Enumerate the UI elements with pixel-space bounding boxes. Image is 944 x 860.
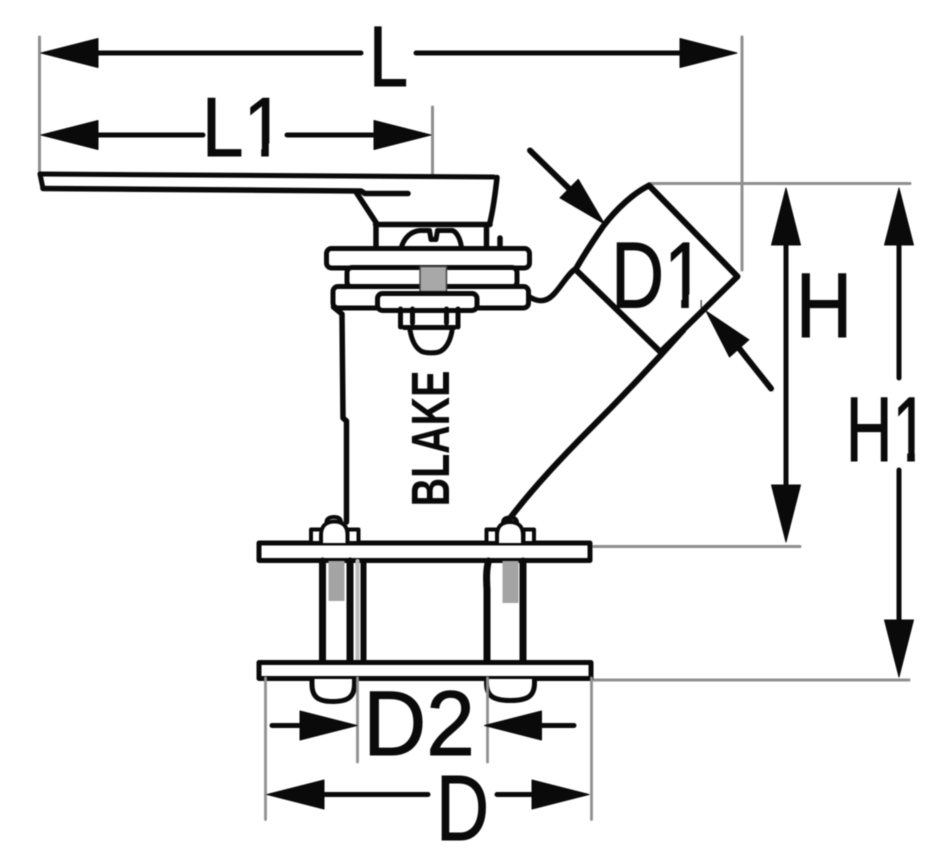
left bolt gray shading — [329, 561, 345, 601]
dimension H1 top arrowhead — [885, 188, 914, 245]
right bolt shaft lines — [487, 561, 523, 662]
dimension D right arrowhead — [532, 780, 589, 809]
cone head right edge — [490, 178, 497, 223]
extension line left for D2 — [356, 678, 359, 762]
svg-text:D: D — [436, 756, 489, 860]
extension line top for H and H1 — [649, 182, 910, 185]
bottom dome of stem — [410, 330, 452, 353]
dimension H bottom arrowhead — [772, 485, 801, 542]
middle band of gland stack — [347, 268, 517, 288]
label L — [369, 9, 408, 105]
dimension H top arrowhead — [772, 188, 801, 245]
extension line left for L and L1 — [38, 37, 41, 172]
extension line right for D — [590, 678, 593, 820]
small plate below stack — [378, 294, 478, 311]
right bolt bottom dome — [487, 679, 535, 701]
dimension L right arrowhead — [680, 39, 737, 68]
handle lever bottom edge — [43, 189, 408, 194]
label L1 — [202, 80, 285, 174]
svg-text:H: H — [796, 255, 852, 357]
dimension D left arrowhead — [267, 780, 324, 809]
label D — [436, 756, 489, 860]
svg-text:H1: H1 — [846, 379, 928, 481]
extension line bottom for H1 — [594, 679, 909, 682]
screw dome with slot — [401, 231, 462, 249]
left bolt shaft lines — [323, 561, 351, 662]
pipe lower edge — [504, 330, 684, 533]
cone head left edge — [356, 192, 376, 223]
upper flange plate — [259, 543, 590, 561]
gray stem square — [420, 267, 447, 295]
svg-text:D1: D1 — [611, 223, 705, 328]
dimension L line — [97, 51, 681, 56]
dimension L1 left arrowhead — [41, 121, 98, 150]
dimension L1 line — [97, 133, 375, 138]
dimension D2 right arrow — [541, 723, 574, 728]
right nut dome — [497, 522, 523, 543]
dimension D2 left arrow — [272, 723, 301, 728]
left nut dome — [321, 522, 348, 544]
top plate of gland stack — [327, 249, 530, 269]
dimension D line — [323, 792, 532, 797]
label H — [796, 255, 852, 357]
lower flange plate — [259, 663, 591, 679]
dimension L left arrowhead — [41, 39, 98, 68]
pointer arrow to flange upper-left edge — [530, 151, 569, 189]
dimension H1 line — [897, 244, 902, 621]
extension line bottom for H — [594, 545, 800, 548]
pointer arrow to flange lower-right edge — [739, 348, 771, 388]
right nut left ear — [487, 530, 498, 544]
outlet flange diamond — [576, 186, 738, 353]
left bolt bottom dome — [312, 679, 355, 702]
label BLAKE on valve body — [401, 371, 461, 507]
dimension H line — [784, 244, 789, 486]
left bolt extension gray strip — [356, 561, 360, 662]
lower band of gland stack — [333, 287, 529, 309]
right nut stub — [503, 518, 517, 523]
svg-text:L1: L1 — [202, 80, 285, 174]
label D2 — [363, 673, 475, 775]
valve body left edge — [334, 307, 347, 522]
dimension H1 bottom arrowhead — [885, 620, 914, 677]
extension line right for L — [741, 37, 744, 270]
svg-text:L: L — [369, 9, 408, 105]
label H1 — [846, 379, 928, 481]
handle lever left tip — [40, 174, 43, 189]
cone head bottom edge — [376, 222, 491, 228]
extension line left for D — [264, 678, 267, 820]
right nut right ear — [524, 530, 535, 544]
dimension L1 right arrowhead — [374, 121, 431, 150]
white masks to remove foot serif of digit 1 (target font has bare stem) — [247, 144, 927, 463]
svg-text:BLAKE: BLAKE — [401, 371, 461, 507]
left nut stub — [327, 517, 342, 522]
pipe upper edge — [528, 269, 576, 301]
extension line right for L1 — [431, 107, 434, 175]
extension line right for D2 — [486, 678, 489, 762]
right bolt gray shading — [503, 561, 519, 603]
label D1 — [611, 223, 705, 328]
gland band below cone — [376, 227, 500, 248]
left nut on plate: left ear — [311, 530, 322, 544]
left nut right ear — [348, 530, 359, 544]
castle nut below — [401, 309, 459, 328]
handle lever top edge — [40, 174, 494, 177]
